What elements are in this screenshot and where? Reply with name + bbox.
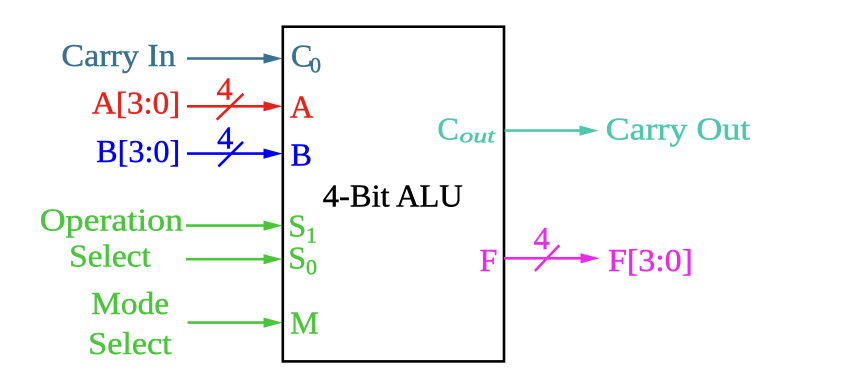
wire S1 [186,224,266,227]
arrowhead S1 [264,221,283,231]
svg-text:4: 4 [217,71,233,107]
svg-text:4: 4 [534,220,550,256]
bus slash B [218,142,243,167]
wire Carry In [187,57,266,60]
arrowhead B [264,149,283,159]
svg-text:B[3:0]: B[3:0] [96,133,180,169]
svg-text:A: A [290,89,314,125]
arrowhead Carry Out [580,126,599,136]
svg-text:S: S [288,208,306,244]
svg-text:Carry Out: Carry Out [606,110,751,146]
arrowhead M [264,318,283,328]
svg-text:0: 0 [310,53,321,78]
svg-text:out: out [460,126,496,148]
wire B [187,152,266,155]
svg-text:B: B [291,136,312,172]
svg-text:Mode: Mode [91,285,169,321]
wire M [188,321,267,324]
bus slash A [217,94,244,120]
svg-text:Select: Select [69,237,151,273]
wire A [187,105,266,108]
svg-text:4: 4 [217,119,233,155]
svg-text:C: C [437,111,458,147]
ALU box U1 [283,27,504,362]
svg-text:A[3:0]: A[3:0] [92,85,180,121]
wire Carry Out [505,129,583,132]
svg-text:1: 1 [306,223,317,248]
svg-text:F[3:0]: F[3:0] [608,242,693,278]
arrowhead A [264,101,283,111]
wire S0 [186,258,266,261]
arrowhead Carry In [264,53,283,63]
svg-text:Operation: Operation [40,202,183,238]
bus slash F [535,245,559,271]
svg-text:0: 0 [306,254,317,279]
svg-text:M: M [290,305,319,341]
svg-text:Carry In: Carry In [61,37,175,73]
svg-text:F: F [480,242,498,278]
wire F [504,257,583,260]
svg-text:S: S [288,239,306,275]
svg-text:Select: Select [88,325,172,361]
arrowhead F [581,253,600,263]
arrowhead S0 [264,254,283,264]
svg-text:4-Bit ALU: 4-Bit ALU [323,178,463,214]
